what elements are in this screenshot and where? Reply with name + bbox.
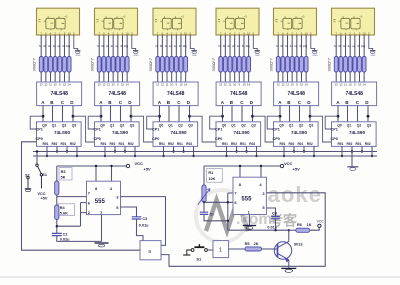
svg-text:Q2: Q2 [178,124,183,128]
svg-text:74LS48: 74LS48 [230,91,248,97]
svg-text:Cr: Cr [210,212,215,216]
svg-text:300Ω*7: 300Ω*7 [32,57,37,71]
wire S3 to gate [207,249,213,251]
svg-text:14: 14 [68,83,72,87]
svg-text:+5V: +5V [41,197,48,201]
svg-text:11: 11 [166,83,169,87]
svg-text:CP0: CP0 [152,137,159,141]
svg-text:300Ω*7: 300Ω*7 [211,57,216,71]
resistor R4 [58,204,74,216]
counter U9 74LS90 [152,122,198,147]
svg-text:R01: R01 [240,142,246,146]
svg-text:9f: 9f [242,44,244,48]
wires resistors to decoder [158,72,186,82]
wire C3 to divider [137,219,144,241]
wire reset bus R0 [33,155,377,157]
junction dots on reset bus [46,150,78,157]
svg-text:10: 10 [54,83,58,87]
svg-text:15: 15 [63,83,67,87]
svg-text:74LS48: 74LS48 [287,91,305,97]
junction node D [130,115,133,118]
svg-text:VCC: VCC [284,161,293,166]
ground (555 #1) [95,243,109,247]
svg-text:CP0: CP0 [36,137,43,141]
switch S1 [36,164,43,189]
pushbutton S3 [183,244,207,255]
svg-text:1: 1 [219,248,222,254]
wire C5 bottom to node [204,214,228,220]
wires resistors to decoder [99,72,127,82]
svg-text:10g: 10g [124,44,129,48]
wire R3/R4 junction to 555 pin7 [57,195,87,205]
svg-text:R92: R92 [289,142,295,146]
svg-text:R91: R91 [101,142,107,146]
display pin wires [221,35,249,57]
svg-text:10g: 10g [182,44,187,48]
watermark text baoke [236,182,322,229]
wire to R6 [289,229,296,231]
junction node D [72,115,75,118]
wire dp pin to ground [74,35,78,51]
svg-text:11: 11 [49,83,52,87]
wire reset bus R9 [33,151,377,153]
svg-text:+5: +5 [181,14,185,18]
svg-text:Q2: Q2 [357,124,362,128]
counter reset pin wires [105,146,135,156]
wire dp pin to ground [190,35,194,51]
display DS2 (dual 7-seg) [95,8,138,35]
wire 555#2 pin1 ground [249,215,251,226]
display DS6 (dual 7-seg) [332,8,375,35]
svg-text:9f: 9f [179,44,181,48]
wire carry Q3 to next CP0 [131,116,153,142]
junction node D [309,115,312,118]
wire carry Q3 to next CP0 [73,116,95,142]
svg-text:10: 10 [291,83,295,87]
svg-text:R01: R01 [177,142,183,146]
svg-text:13: 13 [40,83,44,87]
ground (display common) [370,51,376,57]
svg-text:R6: R6 [297,223,302,227]
counter reset pin wires [47,146,77,156]
wire dp pin to ground [369,35,373,51]
svg-text:Q1: Q1 [110,124,115,128]
svg-text:300Ω*7: 300Ω*7 [90,57,95,71]
wires decoder to counter [160,106,190,122]
pin name labels [97,44,129,48]
svg-text:15: 15 [242,83,246,87]
power rail VCC right [204,166,280,177]
svg-text:R91: R91 [338,142,344,146]
svg-text:74LS90: 74LS90 [291,130,308,135]
svg-text:10: 10 [112,83,116,87]
svg-text:+5: +5 [244,14,248,18]
switch S2 stub to ground [25,177,31,192]
svg-text:10g: 10g [66,44,71,48]
wires decoder to counter [280,106,310,122]
svg-text:300Ω*7: 300Ω*7 [269,57,274,71]
svg-text:14: 14 [363,83,367,87]
decoder U6 74LS48 [332,82,377,106]
divider block (8) [140,241,161,260]
svg-text:CP1: CP1 [152,128,159,132]
svg-text:555: 555 [95,199,106,205]
wire R5 to base [262,248,278,250]
svg-text:10: 10 [68,32,72,36]
ground (555 #2) [243,226,256,230]
svg-text:Q2: Q2 [241,124,246,128]
junction node A [279,115,282,118]
resistor pack RP4 300R*7 [219,57,251,73]
svg-text:Q0: Q0 [100,124,105,128]
svg-text:11: 11 [286,83,289,87]
svg-text:12: 12 [339,83,343,87]
wire dp pin to ground [311,35,315,51]
resistor pack RP5 300R*7 [276,57,308,73]
wire dp pin to ground [253,35,257,51]
svg-text:555: 555 [241,196,252,202]
svg-text:CP1: CP1 [36,128,43,132]
svg-text:Q0: Q0 [42,124,47,128]
svg-text:15: 15 [358,83,362,87]
svg-text:+5V: +5V [144,167,152,172]
ground (reset bus) [347,167,358,171]
svg-text:5K: 5K [61,176,66,180]
svg-text:R92: R92 [168,142,174,146]
wire collector up [288,230,290,241]
svg-text:GND: GND [134,55,139,57]
display pin wires [41,35,69,57]
wire C2 to 555 ground [57,236,102,242]
svg-text:R01: R01 [61,142,67,146]
wire carry Q3 to next CP0 [190,116,217,142]
svg-text:Q1: Q1 [289,124,294,128]
junction node A [100,115,103,118]
svg-text:15: 15 [300,83,304,87]
svg-text:+5V: +5V [293,167,301,172]
wire R6 to VCC terminal [310,227,319,230]
svg-text:CP0: CP0 [331,137,338,141]
junction node D [251,115,254,118]
svg-text:Q1: Q1 [52,124,57,128]
ground (display common) [133,51,139,57]
capacitor C5 [203,202,205,212]
svg-text:11: 11 [229,83,232,87]
junction node D [367,115,370,118]
wire pot wiper node [204,201,233,203]
svg-text:R02: R02 [365,142,371,146]
ground (emitter) [281,268,296,272]
svg-text:300Ω*7: 300Ω*7 [148,57,153,71]
wires resistors to decoder [278,72,306,82]
pin name labels [334,44,366,48]
pin name labels [218,44,250,48]
svg-text:R92: R92 [231,142,237,146]
svg-text:Q0: Q0 [337,124,342,128]
svg-text:5.6K: 5.6K [60,211,68,215]
svg-text:+5: +5 [122,14,126,18]
ground (display common) [255,51,261,57]
wire Q0 to CP1 [210,116,223,129]
svg-text:Q3: Q3 [72,124,77,128]
svg-text:R91: R91 [159,142,165,146]
svg-text:74LS90: 74LS90 [54,130,71,135]
svg-text:1K: 1K [307,223,312,227]
wire Q0 to CP1 [30,116,43,129]
svg-text:74LS48: 74LS48 [50,91,68,97]
counter reset pin wires [284,146,314,156]
svg-text:Q3: Q3 [188,124,193,128]
svg-text:Q3: Q3 [309,124,314,128]
svg-text:Q2: Q2 [120,124,125,128]
svg-text:10: 10 [126,32,130,36]
svg-text:GND: GND [255,55,260,57]
svg-text:R5: R5 [245,242,250,246]
decoder U5 74LS48 [274,82,319,106]
svg-text:10: 10 [170,83,174,87]
wire node vertical 555#2 [228,193,289,230]
svg-text:13: 13 [156,83,160,87]
junction dots on reset bus [341,150,373,157]
svg-text:12: 12 [102,83,106,87]
svg-text:10g: 10g [303,44,308,48]
display DS3 (dual 7-seg) [153,8,196,35]
resistor pack RP1 300R*7 [39,57,71,73]
wire carry Q3 to next CP0 [253,116,274,142]
svg-text:10: 10 [247,32,251,36]
svg-text:Q3: Q3 [367,124,372,128]
svg-text:CP1: CP1 [215,128,222,132]
svg-text:10K: 10K [208,177,215,181]
svg-text:74LS48: 74LS48 [167,91,185,97]
wire Q0 to CP1 [325,116,338,129]
counter reset pin wires [227,146,257,156]
resistor pack RP2 300R*7 [97,57,129,73]
svg-text:Q1: Q1 [168,124,173,128]
display DS4 (dual 7-seg) [216,8,259,35]
svg-text:2K: 2K [254,242,259,246]
svg-text:R01: R01 [298,142,304,146]
svg-text:CP0: CP0 [273,137,280,141]
wires decoder to counter [223,106,253,122]
svg-text:CP1: CP1 [331,128,338,132]
svg-text:15: 15 [121,83,125,87]
svg-text:8: 8 [148,249,151,255]
svg-text:12: 12 [281,83,285,87]
svg-text:13: 13 [219,83,223,87]
svg-text:R92: R92 [110,142,116,146]
wire R4 bottom node [57,203,87,234]
svg-text:15: 15 [179,83,183,87]
svg-text:Q2: Q2 [62,124,67,128]
svg-text:+5: +5 [301,14,305,18]
svg-text:Q1: Q1 [347,124,352,128]
svg-text:10: 10 [305,32,309,36]
svg-text:R1: R1 [208,171,213,175]
junction collector node [288,229,290,231]
svg-text:14: 14 [247,83,251,87]
svg-text:9f: 9f [357,44,359,48]
svg-text:R3: R3 [61,170,66,174]
svg-text:R91: R91 [222,142,228,146]
svg-text:+5: +5 [359,14,363,18]
svg-text:14: 14 [126,83,130,87]
wires decoder to counter [101,106,131,122]
svg-text:14: 14 [184,83,188,87]
display pin wires [99,35,127,57]
svg-text:GND: GND [371,55,376,57]
wires resistors to decoder [221,72,249,82]
svg-text:11: 11 [344,83,347,87]
svg-text:9f: 9f [299,44,301,48]
svg-text:R02: R02 [70,142,76,146]
display DS1 (dual 7-seg) [37,8,80,35]
svg-text:R91: R91 [43,142,49,146]
svg-text:300Ω*7: 300Ω*7 [327,57,332,71]
junction dots on reset bus [283,150,315,157]
counter U10 74LS90 [215,122,261,147]
decoder U1 74LS48 [37,82,82,106]
wire 555 pin1 to ground [101,215,103,242]
svg-text:R02: R02 [128,142,134,146]
svg-text:74LS90: 74LS90 [170,130,187,135]
svg-text:74LS48: 74LS48 [345,91,363,97]
svg-text:12: 12 [161,83,165,87]
timer U14 555 [233,177,266,214]
svg-text:R91: R91 [280,142,286,146]
wire 555#1 pin5 to C3 [121,207,137,217]
svg-text:10: 10 [349,83,353,87]
svg-text:GND: GND [76,55,81,57]
svg-text:9f: 9f [62,44,64,48]
junction node D [188,115,191,118]
ground (display common) [75,51,81,57]
svg-text:13: 13 [277,83,281,87]
junction node A [42,115,45,118]
wire Q0 to CP1 [147,116,160,129]
display pin wires [336,35,364,57]
svg-text:Q3: Q3 [251,124,256,128]
wires resistors to decoder [41,72,69,82]
wire C4 bottom [275,219,277,230]
svg-text:R01: R01 [356,142,362,146]
junction node A [337,115,340,118]
svg-text:14: 14 [305,83,309,87]
capacitor C2 [52,233,62,235]
svg-text:12: 12 [224,83,228,87]
ground (display common) [312,51,318,57]
svg-text:11: 11 [107,83,110,87]
pin name labels [155,44,187,48]
watermark logo [196,190,248,242]
svg-text:10: 10 [233,83,237,87]
wires decoder to counter [338,106,368,122]
junction node A [158,115,161,118]
svg-text:R01: R01 [119,142,125,146]
svg-text:CP0: CP0 [215,137,222,141]
junction node A [221,115,224,118]
svg-text:74LS90: 74LS90 [112,130,129,135]
resistor pack RP3 300R*7 [156,57,188,73]
svg-text:Q2: Q2 [299,124,304,128]
wire 555#1 out pin3 to divider [121,197,166,246]
junction dots on reset bus [104,150,136,157]
svg-text:10: 10 [363,32,367,36]
junction dots on reset bus [225,150,257,157]
counter U12 74LS90 [331,122,377,147]
svg-text:9013: 9013 [294,242,302,246]
wire carry Q3 to next CP0 [310,116,332,142]
junction dots on reset bus [162,150,194,157]
svg-text:Q0: Q0 [159,124,164,128]
svg-text:S1: S1 [42,173,47,177]
svg-text:10g: 10g [245,44,250,48]
timer U13 555 [87,181,121,215]
counter reset pin wires [342,146,372,166]
svg-text:C2: C2 [63,233,68,237]
svg-text:R02: R02 [249,142,255,146]
svg-text:R92: R92 [52,142,58,146]
svg-text:GND: GND [313,55,318,57]
power rail VCC left [57,166,127,181]
capacitor C4 [271,217,280,219]
decoder U4 74LS48 [216,82,261,106]
separator line [0,276,400,278]
wire Q0 to CP1 [267,116,280,129]
svg-text:S1: S1 [196,256,202,261]
svg-text:0.02u: 0.02u [60,237,70,241]
counter U11 74LS90 [273,122,319,147]
svg-text:74LS48: 74LS48 [108,91,126,97]
transistor Q1 9013 [274,241,291,262]
wire emitter to ground [288,260,290,268]
svg-text:CP1: CP1 [273,128,280,132]
decoder U2 74LS48 [95,82,140,106]
svg-text:R02: R02 [307,142,313,146]
display DS5 (dual 7-seg) [274,8,317,35]
svg-text:Q0: Q0 [222,124,227,128]
wire Q0 to CP1 [88,116,101,129]
svg-text:C3: C3 [142,217,147,221]
resistor R3 [56,166,58,181]
display pin wires [278,35,306,57]
svg-text:+5: +5 [64,14,68,18]
svg-text:10g: 10g [361,44,366,48]
counter U7 74LS90 [36,122,82,147]
svg-text:R92: R92 [347,142,353,146]
wires resistors to decoder [336,72,364,82]
potentiometer R1 [203,166,205,185]
ground (display common) [192,51,198,57]
svg-text:9f: 9f [120,44,122,48]
svg-text:12: 12 [44,83,48,87]
counter reset pin wires [164,146,194,156]
svg-text:Q1: Q1 [231,124,236,128]
decoder U3 74LS48 [153,82,198,106]
display pin wires [158,35,186,57]
wire 555#2 pin5 to C4 [267,208,276,217]
resistor pack RP6 300R*7 [334,57,366,73]
wire gate to R5 [229,248,245,250]
wire dp pin to ground [132,35,136,51]
wire clock to counter1 CP0 [22,142,141,250]
svg-text:R02: R02 [186,142,192,146]
wire bus to switch S1 [36,152,38,165]
svg-text:74LS90: 74LS90 [233,130,250,135]
svg-text:GND: GND [192,55,197,57]
wires decoder to counter [43,106,73,122]
gate block 1 [213,241,229,258]
